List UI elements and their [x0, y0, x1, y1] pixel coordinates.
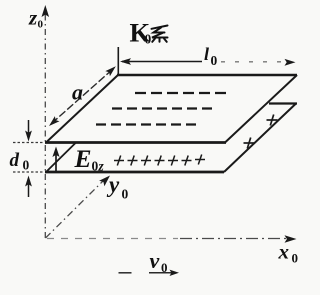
- svg-text:y: y: [106, 172, 120, 197]
- svg-text:0: 0: [92, 158, 99, 173]
- l0 right arrowhead: [285, 59, 296, 66]
- dimension a line: [52, 69, 114, 124]
- CJK character Xi drawn as strokes: [152, 26, 168, 42]
- d0 upper arrow shaft: [28, 120, 30, 133]
- l0 dimension extension line: [117, 47, 119, 74]
- svg-text:0: 0: [38, 19, 44, 31]
- dimension a upper arrowhead: [105, 66, 116, 76]
- svg-text:0: 0: [292, 251, 299, 266]
- minus charges row 1: [135, 92, 226, 94]
- y0 axis arrowhead: [99, 176, 110, 187]
- z0 axis: [44, 13, 46, 238]
- d0 lower arrowhead pointing up: [25, 176, 32, 187]
- svg-text:0: 0: [122, 187, 129, 202]
- d0 upper arrowhead pointing down: [25, 131, 32, 142]
- svg-text:a: a: [72, 80, 83, 105]
- svg-text:z: z: [98, 158, 105, 173]
- svg-text:z: z: [28, 6, 38, 30]
- svg-text:d: d: [10, 150, 20, 171]
- svg-text:l: l: [204, 44, 209, 64]
- svg-text:0: 0: [211, 53, 218, 68]
- E0z field arrow shaft: [55, 153, 57, 172]
- svg-text:v: v: [150, 248, 160, 273]
- svg-text:0: 0: [145, 32, 152, 47]
- svg-text:E: E: [74, 144, 92, 173]
- l0 left arrowhead: [120, 58, 131, 65]
- l0 dimension line: [122, 61, 202, 63]
- plus charges front row: [114, 155, 205, 166]
- svg-text:0: 0: [23, 158, 30, 173]
- d0 dimension extension lines: [13, 142, 44, 144]
- d0 lower arrow shaft: [28, 184, 30, 197]
- v0 arrowhead: [170, 270, 180, 276]
- v0 dashed arrow: [119, 272, 132, 274]
- plus charges right strip: [244, 115, 278, 149]
- top plate (negative plate): [45, 75, 297, 143]
- svg-text:x: x: [278, 240, 290, 264]
- y0 axis: [46, 181, 104, 238]
- z0 axis arrowhead: [42, 5, 50, 17]
- bottom plate (positive plate) visible edges: [45, 104, 297, 173]
- minus charges row 3: [96, 123, 197, 125]
- x0 axis: [47, 238, 178, 240]
- minus charges row 2: [112, 107, 213, 109]
- E0z field arrowhead: [52, 147, 59, 158]
- dimension a lower arrowhead: [49, 116, 60, 126]
- x0 axis arrowhead: [285, 235, 297, 243]
